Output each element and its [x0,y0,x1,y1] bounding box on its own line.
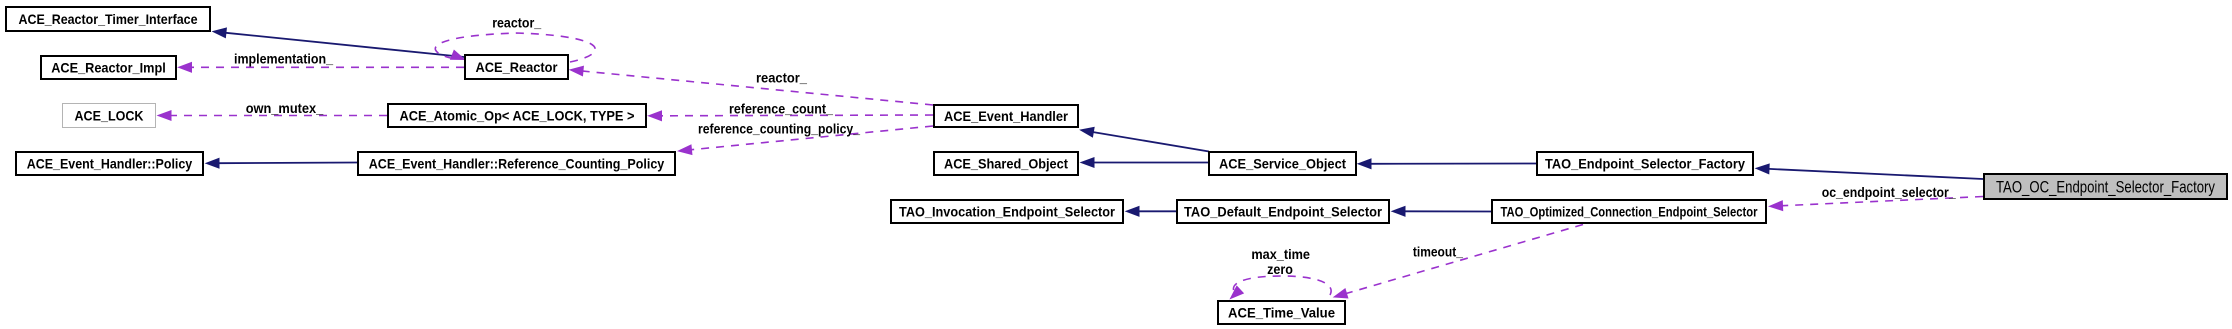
usage self-loop max_time / zero on ACE_Time_Value [1231,276,1332,299]
node: class ACE_LOCK [63,104,156,128]
svg-text:ACE_Event_Handler: ACE_Event_Handler [944,108,1068,124]
node: class ACE_Reactor [465,55,568,79]
svg-text:ACE_LOCK: ACE_LOCK [75,108,144,124]
svg-text:max_time: max_time [1251,246,1310,262]
node: class ACE_Reactor_Timer_Interface [6,7,210,31]
svg-text:reactor_: reactor_ [492,15,541,31]
svg-text:reference_count_: reference_count_ [729,100,833,116]
svg-text:ACE_Time_Value: ACE_Time_Value [1228,305,1335,321]
svg-text:ACE_Service_Object: ACE_Service_Object [1219,156,1346,172]
svg-text:ACE_Reactor_Timer_Interface: ACE_Reactor_Timer_Interface [19,11,198,27]
svg-text:oc_endpoint_selector_: oc_endpoint_selector_ [1822,184,1956,200]
svg-text:own_mutex_: own_mutex_ [246,100,324,116]
usage edge oc_endpoint_selector_ TAO_OC_Endpoint_Selector_Factory -> TAO_Optimized_Connection [1770,197,1984,211]
node: class ACE_Event_Handler [934,105,1078,127]
svg-text:ACE_Shared_Object: ACE_Shared_Object [944,156,1068,172]
svg-text:reactor_: reactor_ [756,69,807,85]
svg-text:TAO_Endpoint_Selector_Factory: TAO_Endpoint_Selector_Factory [1545,156,1745,172]
svg-text:TAO_Default_Endpoint_Selector: TAO_Default_Endpoint_Selector [1184,204,1383,220]
node: class ACE_Event_Handler::Policy [16,152,203,175]
inheritance ACE_Service_Object -> ACE_Shared_Object [1081,158,1208,168]
inheritance ACE_Service_Object -> ACE_Event_Handler [1081,127,1210,151]
node: class ACE_Service_Object [1209,152,1356,175]
svg-text:ACE_Event_Handler::Policy: ACE_Event_Handler::Policy [27,156,193,172]
inheritance TAO_Endpoint_Selector_Factory -> ACE_Service_Object [1358,159,1536,169]
inheritance Reference_Counting_Policy -> ACE_Event_Handler::Policy [206,158,357,168]
usage edge own_mutex_ ACE_Atomic_Op -> ACE_LOCK [158,111,387,121]
node: class TAO_Invocation_Endpoint_Selector [891,200,1123,223]
usage edge reactor_ ACE_Event_Handler -> ACE_Reactor [570,66,933,105]
svg-text:implementation_: implementation_ [234,51,333,67]
node: class ACE_Reactor_Impl [41,56,176,79]
inheritance TAO_Default_Endpoint_Selector -> TAO_Invocation_Endpoint_Selector [1126,207,1176,217]
node: class ACE_Time_Value [1218,301,1345,324]
svg-text:zero: zero [1267,261,1293,277]
svg-text:TAO_Invocation_Endpoint_Select: TAO_Invocation_Endpoint_Selector [899,204,1115,220]
node: class TAO_Default_Endpoint_Selector [1177,200,1389,223]
node: class ACE_Event_Handler::Reference_Counting_Policy [358,152,675,175]
svg-text:timeout_: timeout_ [1413,244,1463,260]
node: class TAO_OC_Endpoint_Selector_Factory (current) [1984,174,2227,199]
usage edge timeout_ TAO_Optimized_Connection -> ACE_Time_Value [1334,225,1583,299]
node: class TAO_Endpoint_Selector_Factory [1537,152,1753,175]
svg-text:ACE_Reactor: ACE_Reactor [476,59,558,75]
svg-text:reference_counting_policy_: reference_counting_policy_ [698,120,860,136]
node: class ACE_Shared_Object [934,152,1078,175]
inheritance TAO_Optimized_Connection -> TAO_Default_Endpoint_Selector [1392,207,1491,217]
inheritance ACE_Reactor -> ACE_Reactor_Timer_Interface [213,28,464,57]
svg-text:TAO_OC_Endpoint_Selector_Facto: TAO_OC_Endpoint_Selector_Factory [1996,177,2215,196]
usage edge reference_count_ ACE_Event_Handler -> ACE_Atomic_Op [649,111,934,121]
inheritance TAO_OC_Endpoint_Selector_Factory -> TAO_Endpoint_Selector_Factory [1756,164,1983,179]
svg-text:ACE_Event_Handler::Reference_C: ACE_Event_Handler::Reference_Counting_Po… [369,156,665,172]
node: class TAO_Optimized_Connection_Endpoint_Selector [1492,200,1766,223]
svg-text:ACE_Reactor_Impl: ACE_Reactor_Impl [51,60,166,76]
usage edge reference_counting_policy_ ACE_Event_Handler -> Reference_Counting_Policy [679,126,934,155]
usage self-loop reactor_ on ACE_Reactor [435,33,595,62]
svg-text:ACE_Atomic_Op< ACE_LOCK, TYPE: ACE_Atomic_Op< ACE_LOCK, TYPE > [400,108,635,124]
node: class ACE_Atomic_Op< ACE_LOCK, TYPE > [388,104,646,127]
usage edge implementation_ ACE_Reactor -> ACE_Reactor_Impl [179,63,465,73]
svg-text:TAO_Optimized_Connection_Endpo: TAO_Optimized_Connection_Endpoint_Select… [1501,204,1758,220]
